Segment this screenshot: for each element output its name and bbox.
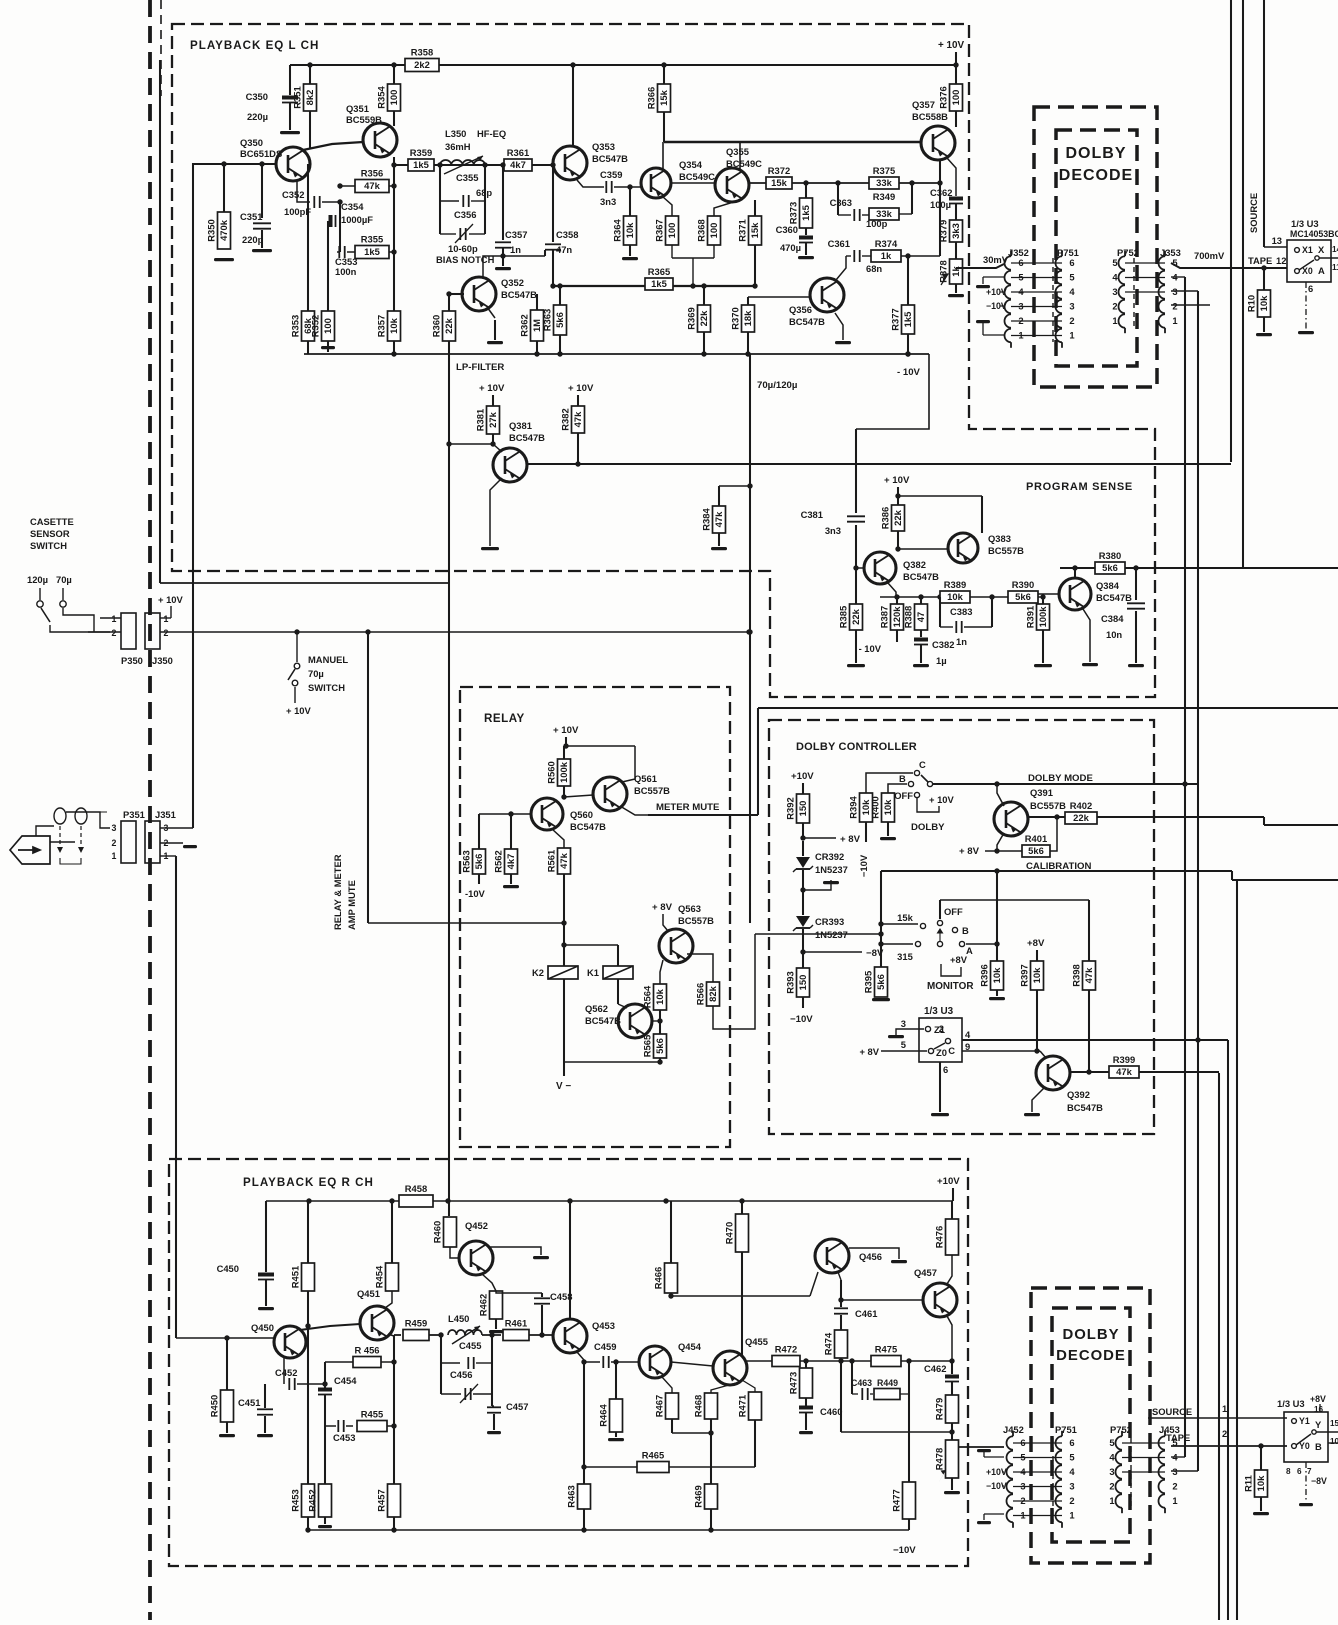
svg-text:5: 5: [1069, 272, 1074, 283]
svg-text:R11: R11: [1243, 1475, 1254, 1492]
svg-text:3: 3: [901, 1018, 906, 1029]
svg-text:PROGRAM SENSE: PROGRAM SENSE: [1026, 481, 1133, 493]
svg-text:MANUEL: MANUEL: [308, 654, 348, 665]
svg-text:100n: 100n: [335, 266, 357, 277]
svg-text:R382: R382: [560, 408, 571, 430]
svg-text:5: 5: [1112, 257, 1117, 268]
svg-text:R396: R396: [979, 964, 990, 986]
svg-text:2: 2: [112, 628, 117, 638]
svg-text:R398: R398: [1071, 964, 1082, 986]
svg-text:R449: R449: [877, 1378, 898, 1388]
svg-text:R362: R362: [519, 314, 530, 336]
svg-text:R399: R399: [1113, 1054, 1135, 1065]
svg-text:R350: R350: [206, 219, 217, 241]
svg-text:1/3 U3: 1/3 U3: [1277, 1398, 1305, 1409]
svg-text:R395: R395: [863, 971, 874, 993]
svg-text:X: X: [1318, 244, 1325, 255]
svg-text:R460: R460: [432, 1221, 443, 1243]
svg-text:B: B: [962, 925, 969, 936]
svg-text:R476: R476: [934, 1226, 945, 1248]
svg-text:RELAY: RELAY: [484, 712, 525, 725]
svg-text:1: 1: [1172, 315, 1177, 326]
svg-text:OFF: OFF: [894, 790, 913, 801]
svg-text:5k6: 5k6: [1015, 591, 1031, 602]
svg-text:1: 1: [1069, 1510, 1074, 1521]
svg-text:BC559B: BC559B: [346, 114, 382, 125]
svg-text:P752: P752: [1117, 247, 1139, 258]
svg-text:BC549C: BC549C: [679, 171, 715, 182]
svg-text:CALIBRATION: CALIBRATION: [1026, 861, 1091, 872]
svg-text:8: 8: [1286, 1467, 1291, 1476]
svg-text:Q392: Q392: [1067, 1089, 1090, 1100]
svg-text:+ 8V: + 8V: [959, 846, 980, 857]
svg-text:5k6: 5k6: [554, 312, 565, 328]
svg-text:R349: R349: [873, 191, 895, 202]
svg-text:4: 4: [1109, 1452, 1115, 1463]
svg-text:P751: P751: [1055, 1424, 1077, 1435]
svg-text:Y0: Y0: [1299, 1441, 1310, 1451]
svg-text:100: 100: [388, 90, 399, 106]
svg-text:47k: 47k: [572, 411, 583, 427]
svg-text:R452: R452: [307, 1489, 318, 1511]
svg-text:B: B: [1315, 1441, 1322, 1452]
svg-text:Q457: Q457: [914, 1267, 937, 1278]
svg-text:47k: 47k: [558, 852, 569, 868]
svg-text:R563: R563: [461, 850, 472, 872]
svg-text:3: 3: [112, 823, 117, 833]
svg-text:C357: C357: [505, 229, 527, 240]
svg-text:Q354: Q354: [679, 159, 703, 170]
svg-text:R380: R380: [1099, 550, 1121, 561]
svg-text:R360: R360: [431, 315, 442, 337]
svg-text:47k: 47k: [1083, 967, 1094, 983]
svg-text:220µ: 220µ: [247, 111, 268, 122]
svg-text:R352: R352: [310, 315, 321, 337]
svg-text:10k: 10k: [1258, 295, 1269, 311]
svg-text:3: 3: [1109, 1466, 1114, 1477]
svg-text:Q452: Q452: [465, 1220, 488, 1231]
svg-text:C356: C356: [454, 209, 476, 220]
svg-text:R465: R465: [642, 1450, 664, 1461]
svg-text:33k: 33k: [876, 177, 892, 188]
svg-text:R376: R376: [938, 86, 949, 108]
svg-text:2: 2: [1112, 301, 1117, 312]
svg-text:R391: R391: [1025, 606, 1036, 628]
svg-text:10k: 10k: [624, 222, 635, 238]
svg-text:C363: C363: [830, 197, 852, 208]
svg-text:5k6: 5k6: [473, 854, 484, 870]
svg-text:Q384: Q384: [1096, 580, 1120, 591]
svg-text:R451: R451: [290, 1266, 301, 1288]
svg-text:Q391: Q391: [1030, 787, 1053, 798]
svg-text:V −: V −: [556, 1081, 571, 1092]
svg-text:C354: C354: [341, 201, 364, 212]
svg-text:10k: 10k: [654, 988, 665, 1004]
svg-text:R379: R379: [938, 220, 949, 242]
svg-text:L350: L350: [445, 128, 466, 139]
svg-text:LP-FILTER: LP-FILTER: [456, 362, 504, 373]
svg-text:K1: K1: [587, 967, 599, 978]
svg-text:+8V: +8V: [1310, 1394, 1326, 1404]
svg-text:6: 6: [1069, 1437, 1074, 1448]
svg-text:82k: 82k: [707, 985, 718, 1001]
svg-text:MC14053BCP: MC14053BCP: [1290, 229, 1338, 239]
svg-text:1000µF: 1000µF: [341, 214, 373, 225]
svg-text:Q563: Q563: [678, 903, 701, 914]
svg-text:DOLBY: DOLBY: [1066, 145, 1127, 162]
svg-text:J350: J350: [152, 655, 173, 666]
svg-text:OFF: OFF: [944, 906, 963, 917]
svg-text:DOLBY CONTROLLER: DOLBY CONTROLLER: [796, 741, 917, 753]
svg-text:C382: C382: [932, 639, 954, 650]
svg-text:5: 5: [1109, 1437, 1114, 1448]
svg-text:1: 1: [164, 614, 169, 624]
svg-text:BC651DS: BC651DS: [240, 148, 282, 159]
svg-text:R384: R384: [701, 508, 712, 531]
svg-text:R463: R463: [566, 1485, 577, 1507]
svg-text:DECODE: DECODE: [1056, 1348, 1126, 1364]
svg-text:+8V: +8V: [1027, 938, 1045, 949]
svg-text:5k6: 5k6: [654, 1038, 665, 1054]
svg-text:1k5: 1k5: [413, 159, 429, 170]
svg-text:R461: R461: [505, 1318, 527, 1329]
svg-text:+10V: +10V: [937, 1176, 960, 1187]
svg-text:A: A: [966, 945, 973, 956]
svg-text:2: 2: [1172, 1481, 1177, 1492]
svg-text:+10V: +10V: [791, 771, 814, 782]
svg-text:5k6: 5k6: [1102, 562, 1118, 573]
svg-text:METER MUTE: METER MUTE: [656, 802, 720, 813]
svg-text:R392: R392: [785, 797, 796, 819]
svg-text:L450: L450: [448, 1313, 469, 1324]
svg-text:6: 6: [1297, 1467, 1302, 1476]
svg-text:R560: R560: [546, 761, 557, 783]
svg-text:70µ: 70µ: [56, 574, 72, 585]
svg-text:SOURCE: SOURCE: [1152, 1406, 1192, 1417]
svg-text:100: 100: [666, 223, 677, 239]
svg-text:10k: 10k: [1255, 1475, 1266, 1491]
svg-text:2: 2: [164, 628, 169, 638]
svg-text:R371: R371: [737, 219, 748, 241]
svg-text:C383: C383: [950, 606, 972, 617]
svg-text:5: 5: [901, 1039, 906, 1050]
svg-text:Q383: Q383: [988, 533, 1011, 544]
svg-text:15: 15: [1330, 1419, 1338, 1428]
svg-text:R464: R464: [598, 1404, 609, 1427]
svg-text:3n3: 3n3: [600, 196, 616, 207]
svg-text:C462: C462: [924, 1363, 946, 1374]
svg-text:R565: R565: [642, 1035, 653, 1057]
svg-text:Y: Y: [1315, 1419, 1322, 1430]
svg-text:150: 150: [797, 801, 808, 817]
svg-text:BC549C: BC549C: [726, 158, 762, 169]
svg-text:70µ: 70µ: [308, 668, 324, 679]
svg-text:TAPE: TAPE: [1166, 1432, 1190, 1443]
svg-text:27k: 27k: [487, 411, 498, 427]
svg-text:R356: R356: [361, 168, 383, 179]
svg-text:1: 1: [1172, 1495, 1177, 1506]
svg-text:R372: R372: [768, 165, 790, 176]
svg-text:BC547B: BC547B: [903, 571, 939, 582]
svg-text:SOURCE: SOURCE: [1248, 193, 1259, 233]
svg-text:R471: R471: [737, 1395, 748, 1417]
svg-text:B: B: [899, 773, 906, 784]
svg-text:Q562: Q562: [585, 1003, 608, 1014]
svg-text:R394: R394: [848, 796, 859, 819]
svg-text:BC547B: BC547B: [570, 821, 606, 832]
svg-text:+ 10V: + 10V: [158, 594, 184, 605]
svg-text:1N5237: 1N5237: [815, 929, 848, 940]
svg-text:47: 47: [915, 612, 926, 622]
svg-text:+ 8V: + 8V: [840, 834, 861, 845]
svg-text:470k: 470k: [218, 219, 229, 241]
svg-text:36mH: 36mH: [445, 141, 471, 152]
svg-text:R470: R470: [724, 1222, 735, 1244]
svg-text:700mV: 700mV: [1194, 250, 1225, 261]
svg-text:C450: C450: [217, 1263, 239, 1274]
svg-text:1n: 1n: [510, 244, 521, 255]
svg-text:R397: R397: [1019, 964, 1030, 986]
svg-text:R355: R355: [361, 234, 383, 245]
svg-text:70µ/120µ: 70µ/120µ: [757, 380, 797, 391]
svg-text:R478: R478: [934, 1448, 945, 1470]
svg-text:BC547B: BC547B: [789, 316, 825, 327]
svg-text:11: 11: [1332, 263, 1338, 272]
svg-text:120µ: 120µ: [27, 574, 48, 585]
svg-text:C360: C360: [776, 224, 798, 235]
svg-text:Q451: Q451: [357, 1288, 380, 1299]
svg-text:2: 2: [1069, 315, 1074, 326]
svg-text:315: 315: [897, 951, 913, 962]
svg-text:2: 2: [1172, 301, 1177, 312]
svg-text:2: 2: [939, 1023, 944, 1034]
svg-text:BC557B: BC557B: [1030, 800, 1066, 811]
svg-text:22k: 22k: [892, 509, 903, 525]
svg-text:1N5237: 1N5237: [815, 864, 848, 875]
svg-text:R361: R361: [507, 147, 529, 158]
svg-text:J351: J351: [155, 809, 176, 820]
svg-text:R450: R450: [209, 1395, 220, 1417]
svg-text:1: 1: [112, 851, 117, 861]
svg-text:C384: C384: [1101, 613, 1124, 624]
svg-text:BC547B: BC547B: [585, 1015, 621, 1026]
svg-text:4: 4: [1069, 286, 1075, 297]
svg-text:Q561: Q561: [634, 773, 657, 784]
svg-text:SENSOR: SENSOR: [30, 528, 70, 539]
svg-text:R472: R472: [775, 1344, 797, 1355]
svg-text:C361: C361: [828, 238, 850, 249]
svg-text:R390: R390: [1012, 579, 1034, 590]
svg-text:R477: R477: [891, 1489, 902, 1511]
svg-text:PLAYBACK EQ L CH: PLAYBACK EQ L CH: [190, 39, 319, 52]
svg-text:47n: 47n: [556, 244, 572, 255]
svg-text:R381: R381: [475, 409, 486, 431]
svg-text:68n: 68n: [866, 263, 882, 274]
svg-text:Q355: Q355: [726, 146, 749, 157]
svg-text:120k: 120k: [891, 606, 902, 628]
svg-text:R354: R354: [376, 86, 387, 109]
svg-text:R358: R358: [411, 47, 433, 58]
svg-text:R475: R475: [875, 1344, 897, 1355]
svg-text:A: A: [1318, 265, 1325, 276]
svg-text:C461: C461: [855, 1308, 877, 1319]
svg-text:2k2: 2k2: [414, 59, 430, 70]
svg-text:10k: 10k: [1031, 967, 1042, 983]
svg-text:X1: X1: [1302, 245, 1313, 255]
svg-text:7: 7: [1307, 1467, 1312, 1476]
svg-text:C460: C460: [820, 1406, 842, 1417]
svg-text:4: 4: [965, 1029, 971, 1040]
svg-text:AMP MUTE: AMP MUTE: [346, 880, 357, 930]
svg-text:R370: R370: [730, 307, 741, 329]
svg-text:R364: R364: [612, 219, 623, 242]
svg-text:BC547B: BC547B: [1067, 1102, 1103, 1113]
svg-text:2: 2: [1069, 1495, 1074, 1506]
svg-text:16: 16: [1314, 1405, 1324, 1414]
svg-text:- 10V: - 10V: [859, 643, 882, 654]
svg-text:+ 10V: + 10V: [479, 383, 505, 394]
svg-text:DECODE: DECODE: [1059, 167, 1133, 184]
svg-text:R454: R454: [374, 1265, 385, 1288]
svg-text:220p: 220p: [242, 234, 264, 245]
svg-text:1: 1: [1222, 1403, 1227, 1414]
svg-text:15k: 15k: [897, 912, 913, 923]
svg-text:R366: R366: [646, 87, 657, 109]
svg-text:2: 2: [112, 838, 117, 848]
svg-text:10k: 10k: [947, 591, 963, 602]
svg-text:22k: 22k: [850, 608, 861, 624]
svg-text:C454: C454: [334, 1375, 357, 1386]
svg-text:MONITOR: MONITOR: [927, 981, 973, 992]
svg-text:R462: R462: [478, 1294, 489, 1316]
svg-text:+ 10V: + 10V: [884, 475, 910, 486]
svg-text:10k: 10k: [388, 317, 399, 333]
svg-text:R385: R385: [838, 606, 849, 628]
svg-text:R393: R393: [785, 971, 796, 993]
svg-text:1µ: 1µ: [936, 655, 947, 666]
svg-text:5: 5: [1069, 1452, 1074, 1463]
svg-text:+ 10V: + 10V: [938, 40, 964, 51]
svg-text:R453: R453: [290, 1489, 301, 1511]
svg-text:18k: 18k: [742, 310, 753, 326]
svg-text:Q454: Q454: [678, 1341, 702, 1352]
svg-text:R353: R353: [290, 315, 301, 337]
svg-text:1/3 U3: 1/3 U3: [1291, 218, 1319, 229]
svg-text:C459: C459: [594, 1341, 616, 1352]
svg-text:R474: R474: [823, 1332, 834, 1355]
svg-text:Q450: Q450: [251, 1322, 274, 1333]
svg-text:10n: 10n: [1106, 629, 1122, 640]
svg-text:R566: R566: [695, 983, 706, 1005]
svg-text:SWITCH: SWITCH: [30, 540, 67, 551]
svg-text:10: 10: [1330, 1437, 1338, 1446]
svg-text:1k: 1k: [881, 250, 892, 261]
svg-text:100p: 100p: [866, 218, 888, 229]
svg-text:C351: C351: [240, 211, 262, 222]
svg-text:R561: R561: [546, 850, 557, 872]
svg-text:+ 10V: + 10V: [286, 705, 312, 716]
svg-text:Y1: Y1: [1299, 1416, 1310, 1426]
svg-text:2: 2: [1109, 1481, 1114, 1492]
svg-text:+8V: +8V: [950, 954, 968, 965]
svg-text:C463: C463: [851, 1378, 872, 1388]
svg-text:Q352: Q352: [501, 277, 524, 288]
svg-text:100k: 100k: [558, 761, 569, 783]
svg-text:6: 6: [1069, 257, 1074, 268]
svg-text:+ 10V: + 10V: [553, 725, 579, 736]
svg-text:Q356: Q356: [789, 304, 812, 315]
svg-text:15k: 15k: [749, 222, 760, 238]
svg-text:R363: R363: [542, 309, 553, 331]
svg-text:2: 2: [1222, 1428, 1227, 1439]
svg-text:C456: C456: [450, 1369, 472, 1380]
svg-text:R388: R388: [903, 606, 914, 628]
svg-text:R457: R457: [376, 1489, 387, 1511]
svg-text:6: 6: [1308, 283, 1313, 294]
svg-text:R373: R373: [788, 202, 799, 224]
svg-text:1k5: 1k5: [902, 312, 913, 328]
svg-text:C358: C358: [556, 229, 578, 240]
svg-text:4: 4: [1069, 1466, 1075, 1477]
svg-text:1n: 1n: [956, 636, 967, 647]
svg-text:3n3: 3n3: [825, 525, 841, 536]
svg-text:3: 3: [1069, 1481, 1074, 1492]
svg-text:R378: R378: [938, 260, 949, 282]
svg-text:Q353: Q353: [592, 141, 615, 152]
svg-text:10k: 10k: [882, 799, 893, 815]
svg-text:1: 1: [1069, 330, 1074, 341]
svg-text:R389: R389: [944, 579, 966, 590]
svg-text:+ 8V: + 8V: [859, 1046, 879, 1057]
svg-text:13: 13: [1272, 235, 1282, 246]
svg-text:6: 6: [943, 1064, 948, 1075]
svg-text:R368: R368: [696, 219, 707, 241]
svg-text:C381: C381: [801, 509, 823, 520]
svg-text:470µ: 470µ: [780, 242, 801, 253]
svg-text:5k6: 5k6: [1028, 845, 1044, 856]
svg-text:R467: R467: [654, 1395, 665, 1417]
svg-text:K2: K2: [532, 967, 544, 978]
svg-text:DOLBY: DOLBY: [911, 822, 945, 833]
svg-text:5k6: 5k6: [875, 974, 886, 990]
svg-text:R479: R479: [934, 1398, 945, 1420]
svg-text:R455: R455: [361, 1409, 383, 1420]
svg-text:R367: R367: [654, 219, 665, 241]
svg-text:47k: 47k: [713, 511, 724, 527]
svg-text:RELAY & METER: RELAY & METER: [332, 854, 343, 930]
svg-text:CR393: CR393: [815, 916, 844, 927]
svg-text:C457: C457: [506, 1401, 528, 1412]
svg-text:1/3 U3: 1/3 U3: [924, 1006, 954, 1017]
svg-text:22k: 22k: [443, 317, 454, 333]
svg-text:100: 100: [322, 318, 333, 334]
svg-text:Z0: Z0: [936, 1047, 947, 1058]
svg-text:R357: R357: [376, 315, 387, 337]
svg-text:3: 3: [1069, 301, 1074, 312]
svg-text:R386: R386: [880, 507, 891, 529]
svg-text:100µ: 100µ: [930, 199, 951, 210]
svg-text:100k: 100k: [1037, 606, 1048, 628]
svg-text:C453: C453: [333, 1432, 355, 1443]
svg-text:68p: 68p: [476, 187, 492, 198]
svg-text:14: 14: [1332, 245, 1338, 254]
svg-text:R351: R351: [292, 86, 303, 108]
svg-text:R466: R466: [653, 1267, 664, 1289]
svg-text:8k2: 8k2: [304, 90, 315, 106]
svg-text:BC547B: BC547B: [1096, 592, 1132, 603]
svg-text:−10V: −10V: [790, 1014, 813, 1025]
svg-text:Q456: Q456: [859, 1251, 882, 1262]
